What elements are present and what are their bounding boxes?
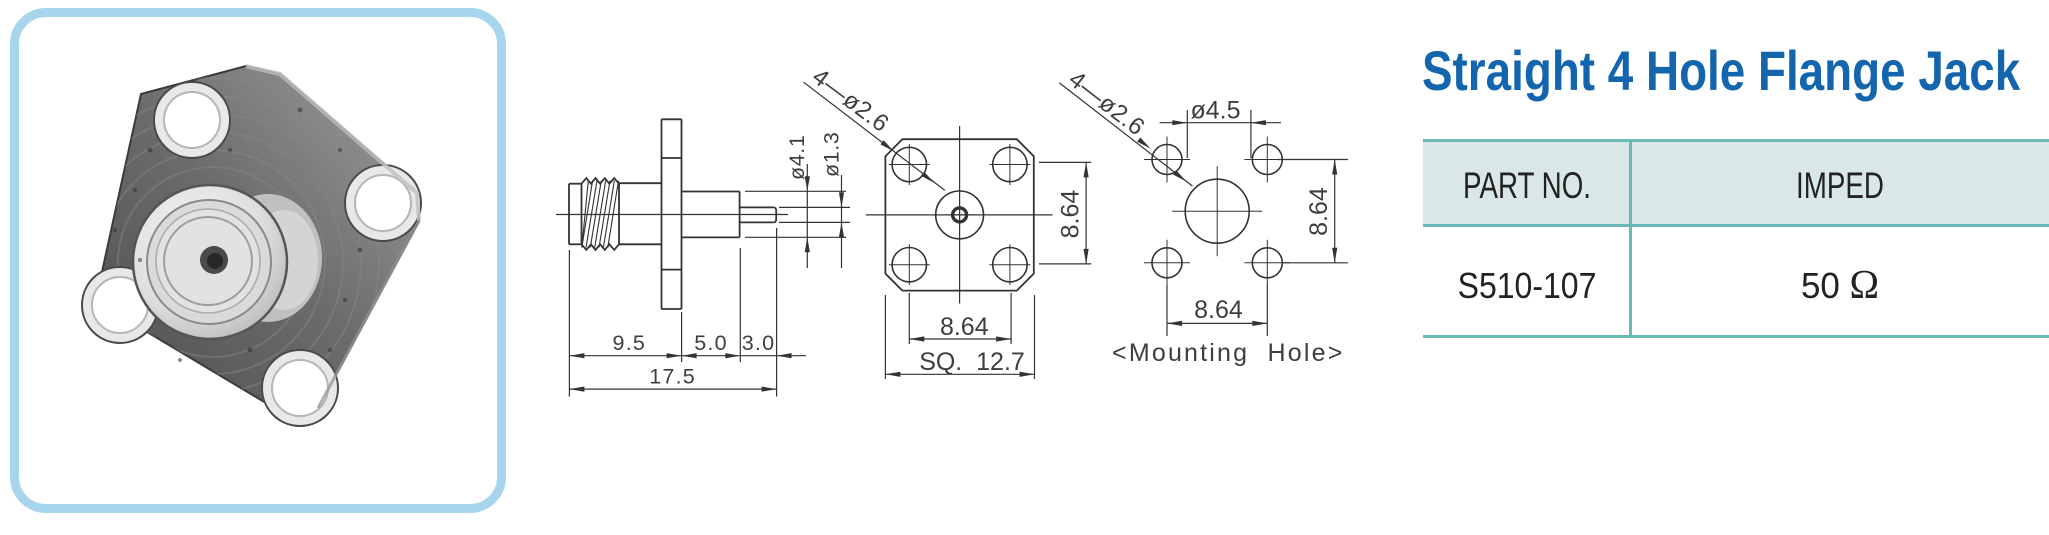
svg-text:SQ. 12.7: SQ. 12.7 bbox=[919, 348, 1025, 376]
svg-text:8.64: 8.64 bbox=[1194, 296, 1243, 324]
svg-text:8.64: 8.64 bbox=[1057, 190, 1085, 239]
svg-text:ø4.5: ø4.5 bbox=[1190, 97, 1240, 125]
svg-text:9.5: 9.5 bbox=[613, 331, 647, 355]
svg-text:<Mounting Hole>: <Mounting Hole> bbox=[1112, 339, 1345, 367]
svg-text:ø4.1: ø4.1 bbox=[785, 135, 809, 180]
svg-text:17.5: 17.5 bbox=[649, 364, 696, 388]
svg-text:8.64: 8.64 bbox=[1305, 187, 1333, 236]
svg-text:4—ø2.6: 4—ø2.6 bbox=[1063, 66, 1149, 141]
svg-text:8.64: 8.64 bbox=[940, 313, 989, 341]
svg-text:ø1.3: ø1.3 bbox=[820, 132, 844, 177]
svg-text:4—ø2.6: 4—ø2.6 bbox=[807, 63, 894, 138]
svg-text:5.0: 5.0 bbox=[694, 331, 728, 355]
svg-text:3.0: 3.0 bbox=[742, 331, 776, 355]
